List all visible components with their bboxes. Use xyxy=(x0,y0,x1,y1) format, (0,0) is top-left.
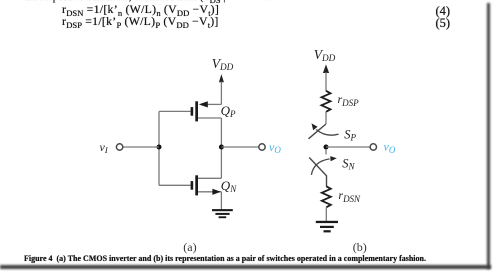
switch SN xyxy=(309,156,337,186)
output terminal circle (b) xyxy=(370,144,376,150)
wire: lead above SP xyxy=(325,112,327,124)
input terminal circle xyxy=(116,144,122,150)
wire: gate bus vertical xyxy=(158,111,160,185)
svg-text:rDSP: rDSP xyxy=(338,92,360,108)
wire: QP source lead (a) xyxy=(206,103,221,105)
svg-text:SN: SN xyxy=(342,156,355,171)
svg-text:(b): (b) xyxy=(353,240,367,254)
wire: drain bus vertical (a) xyxy=(220,118,222,178)
node input junction dot xyxy=(157,145,162,150)
node output dot (b) xyxy=(324,145,329,150)
svg-text:VDD: VDD xyxy=(212,56,234,72)
svg-text:VDD: VDD xyxy=(314,47,336,63)
wire: QN gate lead xyxy=(159,184,191,186)
equation 4 xyxy=(62,4,219,18)
svg-text:rDSN: rDSN xyxy=(338,188,361,204)
wire: QN source drop xyxy=(220,192,222,210)
svg-text:vO: vO xyxy=(384,140,396,155)
wire: lead below rDSN xyxy=(325,207,327,221)
svg-text:QN: QN xyxy=(221,178,237,194)
transistor QP xyxy=(191,101,222,121)
clipped text line at very top xyxy=(25,0,269,5)
switch SP xyxy=(309,123,339,138)
ground (a) xyxy=(212,209,233,218)
wire: output wire (a) xyxy=(221,146,258,148)
node VDD label (a) xyxy=(212,56,234,72)
transistor QN xyxy=(191,175,222,195)
wire: input wire xyxy=(123,146,159,148)
ground (b) xyxy=(316,221,338,233)
output terminal circle (a) xyxy=(259,144,265,150)
wire: stub below node (b) xyxy=(325,149,327,154)
equation number (5) xyxy=(436,17,451,30)
equation 5 xyxy=(62,16,219,30)
wire: output wire (b) xyxy=(326,146,370,148)
svg-text:QP: QP xyxy=(221,103,236,119)
VDD supply arrow (a) xyxy=(219,74,224,104)
wire: QP gate lead xyxy=(159,110,191,112)
page shadow bottom xyxy=(0,265,491,269)
VDD supply arrow (b) xyxy=(323,64,329,91)
svg-text:vO: vO xyxy=(269,140,281,155)
equation number (4) xyxy=(436,5,451,18)
svg-text:(a): (a) xyxy=(183,240,196,254)
node output junction dot (a) xyxy=(219,145,224,150)
svg-text:SP: SP xyxy=(344,127,356,142)
figure caption xyxy=(24,255,426,263)
resistor rDSN xyxy=(322,186,331,207)
page shadow right xyxy=(487,3,491,269)
resistor rDSP xyxy=(322,91,331,112)
svg-text:vI: vI xyxy=(100,140,109,155)
